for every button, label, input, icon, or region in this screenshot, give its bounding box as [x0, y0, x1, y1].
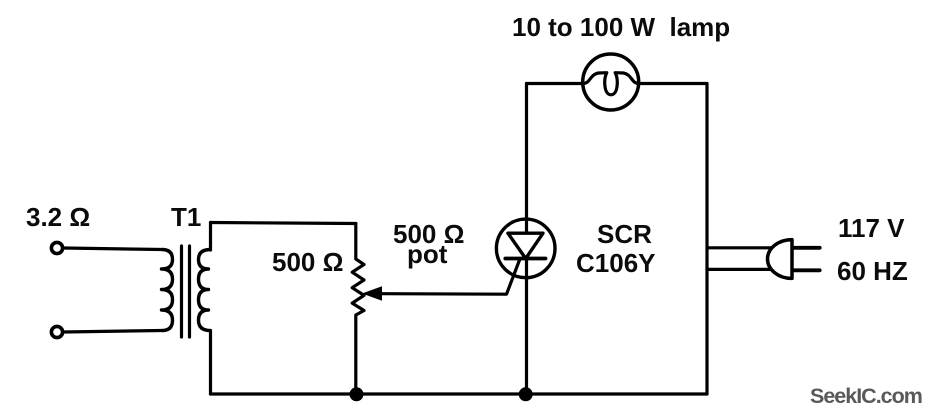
junction dot at SCR cathode / bottom rail [519, 387, 533, 401]
svg-text:60 HZ: 60 HZ [837, 256, 908, 286]
transformer T1 core [182, 246, 190, 337]
wire SCR anode branch (lamp left down to bottom rail) [525, 84, 528, 395]
potentiometer R1 500 Ω zigzag element [352, 224, 364, 395]
svg-text:117 V: 117 V [838, 213, 905, 243]
svg-text:10 to 100 W lamp: 10 to 100 W lamp [512, 12, 730, 42]
lamp DS1 envelope circle [583, 54, 639, 110]
potentiometer wiper arrowhead [364, 287, 382, 300]
wire AC line bottom to plug [707, 268, 773, 271]
svg-text:T1: T1 [171, 202, 201, 232]
svg-text:3.2 Ω: 3.2 Ω [26, 202, 90, 232]
svg-text:C106Y: C106Y [576, 248, 656, 278]
terminal bottom (output) [51, 326, 62, 337]
wire lamp to top-right corner [639, 82, 707, 85]
svg-text:500 Ω: 500 Ω [272, 247, 343, 277]
transformer T1 primary winding [162, 250, 173, 331]
svg-text:pot: pot [407, 239, 448, 269]
junction dot at pot / bottom rail [350, 387, 364, 401]
wire top-left corner to lamp [527, 82, 584, 85]
bottom rail wire [211, 392, 708, 395]
svg-text:SCR: SCR [597, 219, 652, 249]
plug P1 body [768, 240, 793, 279]
SCR Q1 triangle (anode) [508, 233, 543, 258]
svg-text:SeekIC.com: SeekIC.com [810, 384, 922, 408]
wire AC line top to plug [707, 246, 773, 249]
wire top terminal to T1 primary [64, 248, 163, 250]
wire T1 secondary top stub to top rail [209, 223, 212, 251]
plug P1 prong bottom [793, 268, 820, 272]
SCR Q1 cathode bar [505, 257, 545, 261]
transformer T1 secondary winding [199, 250, 211, 331]
wire wiper to SCR gate [380, 260, 520, 294]
wire bottom terminal to T1 primary [64, 331, 163, 333]
lamp DS1 filament [583, 73, 639, 95]
plug P1 prong top [793, 246, 820, 250]
terminal top (output) [51, 242, 62, 253]
wire T1 secondary bottom stub to bottom rail [209, 331, 212, 395]
wire right rail (lamp right down to bottom rail) [705, 84, 708, 395]
SCR Q1 body circle [496, 219, 555, 278]
wire top rail to potentiometer [211, 223, 356, 224]
